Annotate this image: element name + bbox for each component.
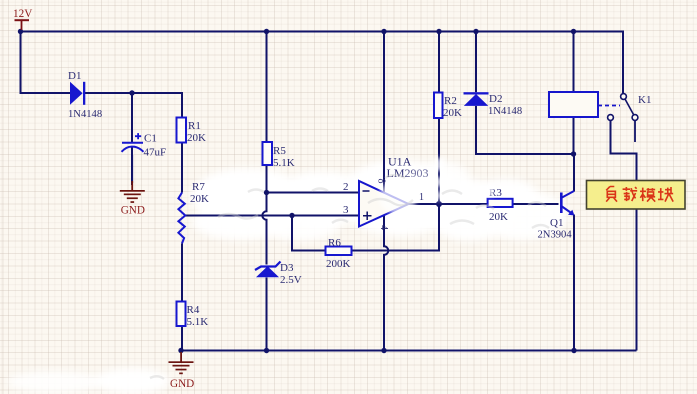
svg-text:D2: D2 (489, 93, 502, 105)
svg-text:C1: C1 (144, 133, 157, 145)
svg-text:2.5V: 2.5V (280, 274, 302, 286)
svg-text:2: 2 (343, 181, 349, 193)
svg-text:200K: 200K (326, 258, 351, 270)
svg-text:R4: R4 (187, 304, 200, 316)
svg-text:1N4148: 1N4148 (488, 106, 522, 117)
svg-text:R2: R2 (444, 95, 457, 107)
svg-text:R5: R5 (273, 145, 286, 157)
svg-text:GND: GND (170, 378, 194, 390)
svg-text:47uF: 47uF (144, 146, 167, 158)
svg-text:K1: K1 (638, 94, 651, 106)
svg-text:8: 8 (376, 179, 387, 184)
svg-text:20K: 20K (190, 193, 209, 205)
svg-text:20K: 20K (187, 132, 206, 144)
svg-text:2N3904: 2N3904 (538, 230, 573, 241)
svg-text:4: 4 (378, 225, 389, 230)
svg-text:5.1K: 5.1K (187, 316, 209, 328)
svg-text:20K: 20K (489, 211, 508, 223)
svg-text:5.1K: 5.1K (273, 157, 295, 169)
svg-text:R1: R1 (188, 120, 201, 132)
svg-text:12V: 12V (13, 8, 32, 20)
svg-text:1: 1 (419, 192, 424, 203)
svg-text:R6: R6 (328, 237, 341, 249)
svg-text:D1: D1 (68, 70, 81, 82)
svg-text:20K: 20K (443, 107, 462, 119)
svg-text:GND: GND (121, 205, 145, 217)
svg-text:3: 3 (343, 204, 349, 216)
svg-text:D3: D3 (280, 262, 294, 274)
svg-text:1N4148: 1N4148 (68, 109, 102, 120)
svg-text:R7: R7 (192, 181, 205, 193)
svg-text:Q1: Q1 (550, 217, 563, 229)
